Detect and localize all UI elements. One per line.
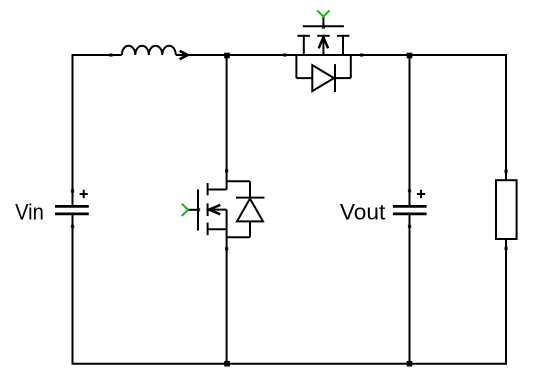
- pin stub Q1 source: [225, 247, 228, 250]
- node junction top-right (output node): [407, 53, 413, 59]
- svg-text:Vout: Vout: [340, 199, 385, 224]
- D2 triangle: [312, 65, 334, 91]
- D1 bottom connection wire: [227, 236, 250, 238]
- capacitor C1 Vin plates: [55, 206, 89, 214]
- D2 anode horizontal: [296, 77, 312, 79]
- C1 plus sign: [80, 190, 88, 198]
- pin stub Q2 source: [283, 53, 286, 56]
- Q1 source contact: [208, 228, 227, 230]
- pin stub C2 top: [408, 189, 411, 192]
- pin stub Q2 gate: [322, 25, 325, 28]
- Q2 channel segment middle: [317, 35, 330, 37]
- wire right rail upper: [505, 54, 507, 180]
- D2 cathode loop right: [350, 55, 352, 78]
- Q1 drain lead wire: [226, 55, 228, 190]
- Q2 channel segment right: [337, 35, 350, 37]
- pin stub C1 bottom: [71, 225, 74, 228]
- D2 cathode bar: [334, 64, 336, 92]
- wire left rail upper: [72, 54, 74, 206]
- transistor Q2 gate stem: [322, 17, 324, 27]
- wire top rail left segment: [73, 54, 122, 56]
- capacitor C2 Vout plates: [393, 206, 427, 214]
- D1 triangle: [237, 199, 263, 222]
- Q1 channel segment bottom: [207, 223, 209, 236]
- pin stub R1 bottom: [504, 247, 507, 250]
- pin stub C2 bottom: [408, 225, 411, 228]
- Q2 channel segment left: [297, 35, 310, 37]
- node junction bottom-right: [407, 361, 413, 367]
- diode D1 top connection wire: [227, 180, 250, 182]
- wire right rail lower: [505, 239, 507, 365]
- pin stub R1 top: [504, 170, 507, 173]
- D1 cathode lead: [249, 181, 251, 197]
- pin stub C1 top: [71, 189, 74, 192]
- svg-text:Vin: Vin: [15, 199, 44, 224]
- Q2 gate input port (green): [317, 10, 329, 16]
- Q1 drain contact: [208, 189, 227, 191]
- wire Vout cap top lead: [409, 55, 411, 206]
- Q1 gate input port (green): [182, 204, 188, 216]
- pin stub L1 left: [109, 53, 112, 56]
- inductor L1: [122, 46, 176, 55]
- Q1 source lead wire: [226, 210, 228, 364]
- diode D2 anode loop left: [295, 55, 297, 78]
- resistor R1 load: [496, 180, 517, 239]
- Q1 body contact with arrow: [208, 209, 227, 211]
- pin stub Q1 gate: [197, 208, 200, 211]
- wire left rail lower: [72, 214, 74, 364]
- pin stub Q2 drain: [360, 53, 363, 56]
- Q2 source contact: [303, 36, 305, 55]
- D2 cathode horizontal: [335, 77, 351, 79]
- D1 cathode bar: [236, 197, 264, 199]
- Q1 channel segment top: [207, 183, 209, 195]
- node junction top-left (switch node): [224, 53, 230, 59]
- node junction bottom-left: [224, 361, 230, 367]
- wire top rail right segment: [176, 54, 506, 56]
- Q1 gate plate: [197, 190, 199, 231]
- current arrow on inductor output: [180, 51, 188, 59]
- transistor Q1 gate stem: [188, 209, 198, 211]
- pin stub Q1 drain: [225, 169, 228, 172]
- Q2 drain contact: [342, 36, 344, 55]
- C2 plus sign: [417, 190, 425, 198]
- wire bottom rail: [72, 363, 507, 365]
- Q2 gate plate: [303, 25, 344, 27]
- Q1 channel segment middle: [207, 203, 209, 216]
- D1 anode lead: [249, 221, 251, 237]
- wire Vout cap bottom lead: [409, 214, 411, 364]
- Q2 body contact with arrow: [322, 36, 324, 55]
